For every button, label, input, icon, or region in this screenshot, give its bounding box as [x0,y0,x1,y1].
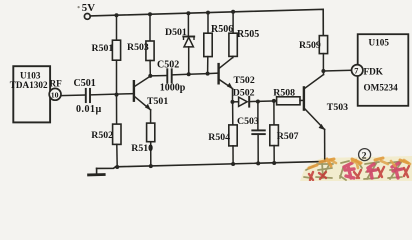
ground [89,168,105,175]
svg-text:R507: R507 [277,131,299,142]
svg-text:R504: R504 [208,132,230,143]
diode D502 [233,88,255,107]
IC U103 box [10,66,50,122]
svg-text:5V: 5V [82,2,95,14]
junction node C503 top [256,100,260,104]
resistor R509 [299,36,328,71]
svg-text:R509: R509 [299,40,321,51]
capacitor C503 [237,102,265,164]
watermark background band [300,156,412,181]
svg-text:C503: C503 [237,116,259,127]
junction node R506 base wire [206,72,210,76]
wire collector node to pin 7 [323,69,351,72]
junction top rail R505 [231,10,235,14]
svg-text:U105: U105 [369,38,390,48]
junction node D502 anode [231,100,235,104]
svg-text:D502: D502 [233,88,255,99]
wire bottom ground rail [97,162,325,169]
svg-text:10: 10 [51,91,59,100]
junction node T501 base [115,93,119,97]
resistor R510 [131,123,155,167]
svg-text:R508: R508 [273,88,295,99]
junction bottom rail R504 [231,162,235,166]
svg-text:R505: R505 [237,29,259,40]
+5V supply label [78,2,96,14]
resistor R506 [204,13,233,74]
pin 10 RF terminal [49,79,62,101]
junction top rail R501 [115,13,119,17]
junction node R507 top [272,99,276,103]
svg-text:7: 7 [354,67,358,76]
resistor R505 [229,12,259,57]
wire RF pin to C501 [61,94,85,97]
svg-text:R503: R503 [127,42,149,53]
wire C502 to T502 base [172,73,217,75]
transistor T503 [304,71,348,162]
junction bottom rail R502 [115,165,119,169]
junction node R509 T503 [321,69,325,73]
wire top +5V rail [90,9,323,35]
resistor R507 [270,101,299,163]
svg-text:1000p: 1000p [160,83,186,94]
resistor R502 [91,95,121,167]
pin 7 terminal [352,65,363,76]
junction top rail R503 [148,12,152,16]
IC U105 box [358,34,409,106]
svg-text:OM5234: OM5234 [364,83,399,93]
resistor R508 [273,88,303,105]
transistor T502 [219,56,255,102]
capacitor C501 [74,78,102,115]
svg-text:T503: T503 [327,102,348,113]
junction top rail R506 [206,11,210,15]
svg-text:U103: U103 [20,71,41,81]
svg-text:2: 2 [362,151,367,161]
svg-text:TDA1302: TDA1302 [10,80,48,90]
junction bottom rail R507 [272,161,276,165]
svg-text:T501: T501 [147,96,168,107]
transistor T501 [134,76,168,123]
capacitor C502 1000p [157,60,186,94]
junction top rail D501 [186,11,190,15]
circled figure number 2 [359,149,371,162]
svg-text:R510: R510 [131,143,153,154]
junction node T501 collector [148,74,152,78]
junction bottom rail R510 [149,164,153,168]
svg-text:R501: R501 [92,43,114,54]
svg-text:C502: C502 [157,60,179,71]
junction node D501 anode [187,72,191,76]
svg-text:T502: T502 [234,75,255,86]
diode D501 [165,13,194,74]
svg-text:RF: RF [50,79,63,89]
resistor R503 [127,14,154,76]
svg-text:FDK: FDK [364,67,384,77]
svg-text:D501: D501 [165,27,187,38]
watermark strokes [304,158,410,180]
svg-text:0.01µ: 0.01µ [76,104,102,115]
svg-text:R502: R502 [91,130,113,141]
+5V terminal [84,14,90,20]
junction bottom rail C503 [256,161,260,165]
resistor R501 [92,15,121,94]
svg-text:C501: C501 [74,78,96,89]
wire T501 collector to C502 [150,75,167,77]
resistor R504 [208,102,237,164]
wire D502 to R508 [249,100,276,103]
wire C501 to T501 base [91,94,133,95]
